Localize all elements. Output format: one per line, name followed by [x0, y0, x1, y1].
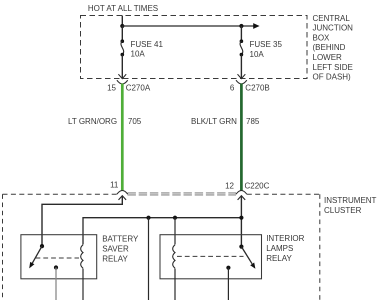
- wire: interior relay coil return to bottom: [174, 269, 176, 300]
- svg-text:10A: 10A: [131, 49, 146, 58]
- svg-text:BOX: BOX: [313, 34, 331, 43]
- wire: up arrow below connector 11 and elbow to battery saver relay: [119, 196, 127, 200]
- connector 12 symbol (cap arc): [236, 191, 247, 195]
- svg-text:785: 785: [246, 117, 260, 126]
- svg-text:(BEHIND: (BEHIND: [313, 43, 346, 52]
- wire: interior lamps relay output to bottom: [227, 268, 229, 300]
- wire 705 LT GRN/ORG (light green): [121, 84, 124, 191]
- wire: fuse 35 output with down arrow at C270B: [240, 55, 242, 79]
- wire: coil return to bottom: [82, 269, 84, 300]
- relay K2 actuator dashed link: [177, 255, 244, 257]
- wire: left feed from top border down to junction: [121, 16, 123, 27]
- wire: up arrow below connector 12 down to relay switch: [238, 196, 246, 200]
- svg-text:HOT AT ALL TIMES: HOT AT ALL TIMES: [88, 4, 158, 13]
- svg-text:6: 6: [230, 84, 235, 93]
- relay K1 actuator dashed link: [36, 257, 80, 259]
- node junction dot A: [120, 24, 124, 28]
- relay K1 switch blade: [32, 246, 42, 263]
- relay K1 switch common node: [40, 244, 44, 248]
- instrument cluster right border vertical: [319, 194, 321, 300]
- relay K2 coil: [173, 245, 175, 268]
- svg-text:RELAY: RELAY: [102, 254, 128, 263]
- fuse F35: [240, 26, 242, 41]
- svg-text:LT GRN/ORG: LT GRN/ORG: [68, 117, 117, 126]
- wire: feed bus from left coil across to right: [83, 218, 241, 245]
- svg-text:RELAY: RELAY: [266, 254, 292, 263]
- svg-text:LOWER: LOWER: [313, 53, 343, 62]
- svg-text:BATTERY: BATTERY: [102, 235, 139, 244]
- svg-text:C270B: C270B: [245, 84, 269, 93]
- relay K2 switch common node: [239, 245, 243, 249]
- relay K2 switch blade: [241, 247, 252, 264]
- svg-text:JUNCTION: JUNCTION: [313, 24, 354, 33]
- svg-text:INTERIOR: INTERIOR: [266, 234, 304, 243]
- svg-text:LEFT SIDE: LEFT SIDE: [313, 63, 353, 72]
- battery saver relay box: [21, 235, 97, 279]
- svg-text:10A: 10A: [250, 50, 265, 59]
- node dot bus-coil drop: [173, 216, 177, 220]
- relay K1 coil: [81, 245, 83, 268]
- svg-text:12: 12: [225, 181, 234, 190]
- svg-text:FUSE 41: FUSE 41: [131, 40, 164, 49]
- svg-text:CENTRAL: CENTRAL: [313, 14, 351, 23]
- instrument cluster border right segment: [247, 193, 320, 195]
- svg-text:CLUSTER: CLUSTER: [324, 206, 362, 215]
- interior lamps relay box: [160, 235, 262, 279]
- wire: fuse 41 output with down arrow at C270A: [121, 55, 123, 79]
- central junction box dashed outline: [81, 16, 308, 79]
- svg-text:C270A: C270A: [126, 84, 151, 93]
- svg-text:11: 11: [110, 181, 119, 190]
- wire: battery saver relay output (gray, cut off): [55, 268, 57, 300]
- wire: drop between relays to bottom: [148, 218, 150, 300]
- node dot bus-right: [239, 216, 243, 220]
- svg-text:OF DASH): OF DASH): [313, 73, 352, 82]
- svg-text:15: 15: [107, 84, 116, 93]
- instrument cluster border left segment: [3, 193, 118, 195]
- relay K1 output contact node: [54, 265, 58, 269]
- connector C270B symbol: [236, 80, 247, 84]
- svg-text:FUSE 35: FUSE 35: [250, 40, 283, 49]
- wire: drop to interior lamps relay coil: [174, 218, 176, 245]
- fuse F41: [121, 26, 123, 41]
- svg-text:INSTRUMENT: INSTRUMENT: [324, 196, 377, 205]
- svg-text:705: 705: [128, 117, 142, 126]
- svg-text:LAMPS: LAMPS: [266, 244, 293, 253]
- relay K2 output contact node: [226, 266, 230, 270]
- connector C270A symbol: [117, 80, 128, 84]
- wire 785 BLK/LT GRN (dark green): [240, 84, 243, 191]
- node dot bus-left drop: [146, 216, 150, 220]
- instrument cluster border gray segment: [128, 192, 237, 194]
- instrument cluster left border vertical: [2, 194, 4, 300]
- svg-text:C220C: C220C: [245, 181, 270, 190]
- connector 11 symbol (cap arc): [117, 191, 128, 195]
- wire: horizontal bus inside CJB with arrow: [122, 25, 253, 27]
- svg-text:SAVER: SAVER: [102, 245, 129, 254]
- svg-text:BLK/LT GRN: BLK/LT GRN: [191, 117, 237, 126]
- node junction dot B: [239, 24, 243, 28]
